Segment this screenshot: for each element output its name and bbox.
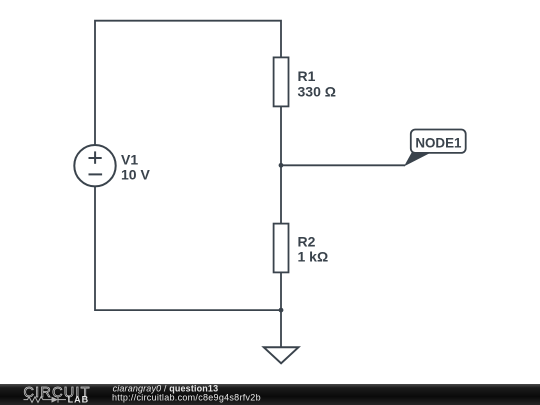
ground — [264, 347, 299, 363]
resistor R2 — [274, 224, 289, 273]
voltage source V1 — [74, 145, 115, 186]
R1 value label — [298, 68, 336, 100]
junction node middle — [279, 163, 284, 168]
svg-text:1 kΩ: 1 kΩ — [298, 249, 329, 265]
logo resistor zigzag and diode — [24, 397, 67, 403]
V1 value label — [121, 151, 150, 182]
wire middle vertical: R1 bottom to R2 top — [280, 106, 282, 223]
svg-text:10 V: 10 V — [121, 166, 150, 182]
svg-text:http://circuitlab.com/c8e9g4s8: http://circuitlab.com/c8e9g4s8rfv2b — [112, 393, 261, 403]
svg-text:330 Ω: 330 Ω — [298, 84, 336, 100]
resistor R1 — [274, 57, 289, 106]
wire top-left loop: V1 top to R1 top — [95, 21, 281, 146]
wire R2 bottom to ground — [280, 272, 282, 347]
svg-text:V1: V1 — [121, 151, 138, 167]
svg-text:R2: R2 — [298, 233, 316, 249]
junction node bottom — [279, 308, 284, 313]
svg-text:LAB: LAB — [68, 395, 90, 405]
R2 value label — [298, 233, 329, 264]
svg-text:NODE1: NODE1 — [415, 136, 462, 151]
svg-text:R1: R1 — [298, 68, 316, 84]
wire left bottom: V1 bottom down and right to ground node — [95, 186, 281, 310]
node label NODE1 — [404, 130, 466, 167]
wire node horizontal to NODE1 — [281, 164, 405, 166]
